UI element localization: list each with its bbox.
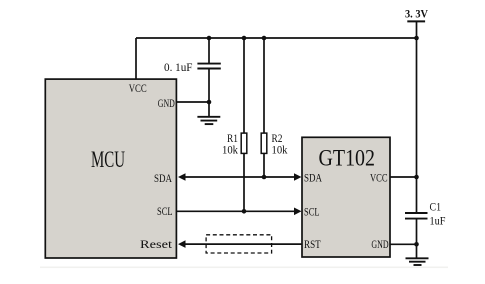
svg-text:C1: C1 — [430, 200, 442, 214]
junction node: GND / cap bottom — [207, 100, 212, 105]
resistor R2 : body — [261, 133, 267, 153]
resistor R1 : body — [241, 133, 247, 153]
GT102 box U2 — [302, 137, 390, 257]
arrow into MCU SDA — [178, 173, 186, 181]
svg-text:GND: GND — [158, 96, 175, 110]
wire: GT102 GND to power vertical — [390, 243, 417, 245]
svg-text:GND: GND — [371, 237, 388, 251]
dashed option box on reset line — [206, 235, 272, 253]
svg-text:SDA: SDA — [154, 171, 172, 185]
wire: VCC top rail — [136, 37, 417, 39]
capacitor C2 0.1uF : top stem — [208, 38, 210, 64]
capacitor C2 0.1uF : bottom stem — [208, 69, 210, 117]
svg-text:MCU: MCU — [91, 147, 125, 173]
svg-text:GT102: GT102 — [319, 146, 376, 172]
wire: SDA net — [180, 176, 298, 178]
junction node: SCL / R1 — [242, 209, 247, 214]
arrow into MCU Reset — [178, 240, 186, 248]
capacitor C1 : top plate — [405, 212, 428, 214]
wire: power vertical (C1 bottom plate down to ground) — [416, 219, 418, 259]
wire: GT102 VCC to power vertical — [390, 176, 417, 178]
svg-text:SCL: SCL — [304, 205, 320, 219]
resistor R1 : bottom wire — [243, 153, 245, 211]
arrow into GT102 SCL — [294, 208, 302, 216]
junction node: GND / power vertical — [414, 242, 419, 247]
faint page rule under figure — [40, 267, 448, 269]
svg-text:3. 3V: 3. 3V — [405, 7, 428, 21]
svg-text:SCL: SCL — [157, 204, 173, 218]
wire: power vertical (bar down to C1 top plate) — [416, 21, 418, 213]
capacitor C2 0.1uF : top plate — [197, 63, 220, 65]
svg-text:1uF: 1uF — [430, 214, 446, 228]
wire: MCU GND pin to capacitor node — [176, 101, 209, 103]
junction node: rail / 0.1uF cap — [207, 36, 212, 41]
svg-text:VCC: VCC — [129, 81, 147, 95]
svg-text:0. 1uF: 0. 1uF — [164, 60, 193, 74]
wire: rail drop to MCU VCC pin — [135, 38, 137, 80]
power bar (3.3V rail symbol) — [407, 20, 425, 22]
resistor R2 : top wire — [263, 38, 265, 133]
resistor R2 : bottom wire — [263, 153, 265, 177]
capacitor C1 : bottom plate — [405, 218, 428, 220]
svg-text:RST: RST — [304, 237, 321, 251]
junction node: rail / R1 — [242, 36, 247, 41]
junction node: rail / power vertical — [414, 36, 419, 41]
wire: SCL net — [176, 210, 298, 212]
junction node: SDA / R2 — [262, 175, 267, 180]
resistor R1 : top wire — [243, 38, 245, 133]
junction node: VCC / power vertical — [414, 175, 419, 180]
svg-text:10k: 10k — [272, 143, 288, 157]
svg-text:VCC: VCC — [370, 171, 388, 185]
svg-text:10k: 10k — [222, 143, 238, 157]
ground symbol (left, under 0.1uF) — [197, 117, 220, 124]
capacitor C2 0.1uF : bottom plate — [197, 68, 220, 70]
svg-text:SDA: SDA — [304, 171, 322, 185]
ground symbol (right, under C1) — [406, 258, 429, 265]
svg-text:Reset: Reset — [140, 237, 173, 251]
wire: Reset net — [180, 243, 302, 245]
junction node: rail / R2 — [262, 36, 267, 41]
arrow into GT102 SDA — [294, 173, 302, 181]
MCU box U1 — [45, 79, 176, 258]
